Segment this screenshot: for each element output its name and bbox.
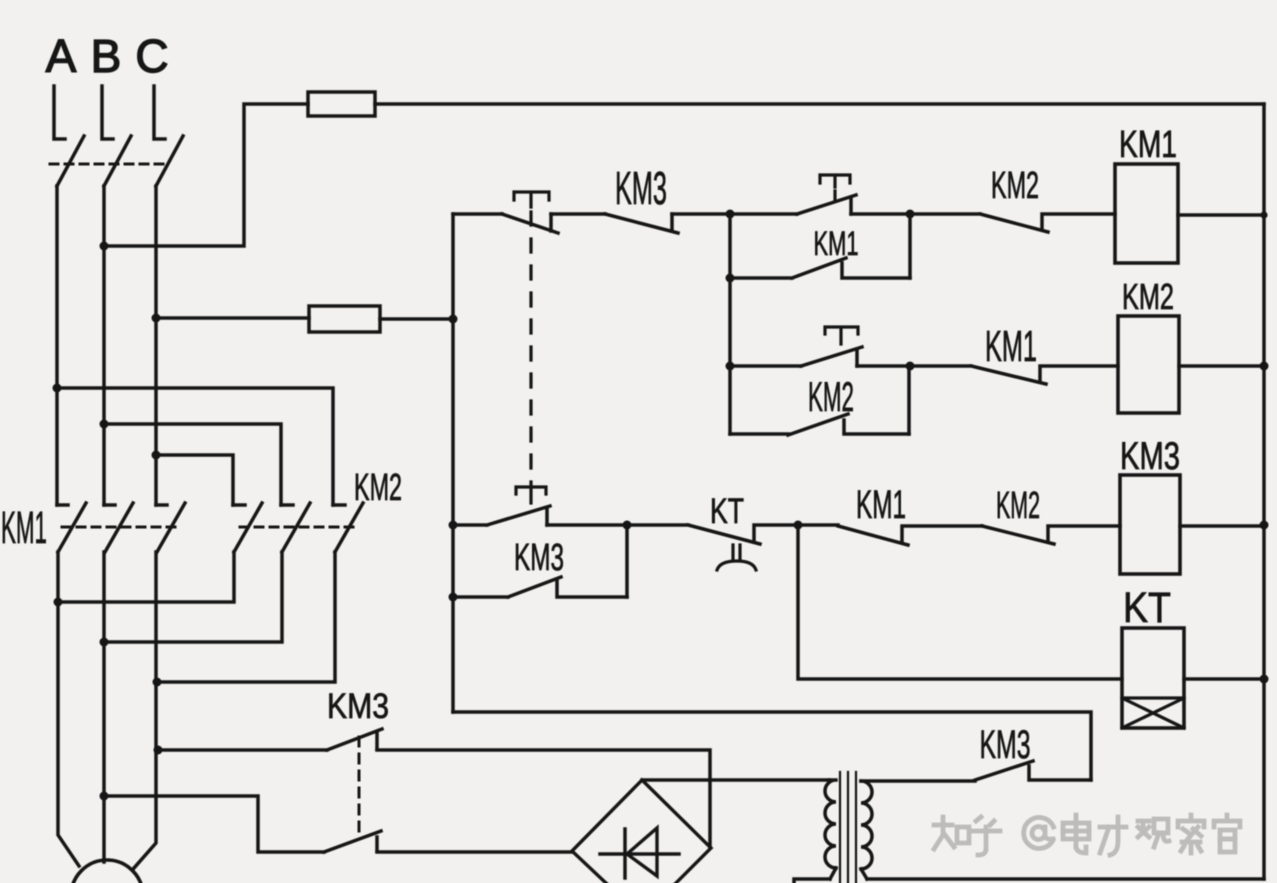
wire B tap to KM3 lower contact xyxy=(104,796,324,852)
dashed link QS xyxy=(50,163,167,166)
node right bus rung2 xyxy=(1260,362,1269,371)
svg-text:KM1: KM1 xyxy=(856,483,906,527)
stop button SB1 NC contact xyxy=(502,214,558,233)
node right bus rung3 xyxy=(1260,521,1269,530)
node B crossover xyxy=(100,420,109,429)
node left bus rung3 xyxy=(449,521,458,530)
KM1 main contact pole A xyxy=(57,503,86,552)
KM1 main contact pole B xyxy=(104,503,133,552)
node rung1 right xyxy=(906,210,915,219)
wire parallel branch left xyxy=(728,214,732,278)
KM2 main contact pole left xyxy=(233,503,262,552)
wire phase B upper xyxy=(102,186,106,505)
start button SB3 NO contact xyxy=(801,347,862,366)
KM2 NC contact rung1 xyxy=(910,214,1115,232)
wire A to KM2 right pole xyxy=(57,388,333,505)
svg-text:B: B xyxy=(91,30,122,82)
wire KM3 upper to rectifier AC xyxy=(377,750,710,847)
stop button SB1 actuator xyxy=(514,192,549,207)
svg-text:KM3: KM3 xyxy=(1120,435,1180,478)
dashed link SB1 xyxy=(529,212,532,484)
fuse FU1 xyxy=(308,92,375,116)
coil KT delay section xyxy=(1122,698,1184,728)
wire KM3 parallel branch right xyxy=(625,525,629,597)
node parallel branch xyxy=(726,274,735,283)
svg-text:KM1: KM1 xyxy=(985,322,1037,371)
svg-text:C: C xyxy=(135,30,168,82)
wire KM2 middle pole to phase B xyxy=(104,552,282,642)
node B KM3 tap xyxy=(100,792,109,801)
wire secondary bottom xyxy=(794,879,830,883)
wire SB2 to node xyxy=(851,212,910,216)
wire bottom feeder xyxy=(453,712,1091,780)
coil KT xyxy=(1122,628,1184,728)
start button SB4 actuator xyxy=(516,487,546,503)
node A lower xyxy=(54,598,63,607)
coil KM3 xyxy=(1120,475,1180,574)
node rung2 right xyxy=(906,362,915,371)
KM1 aux NO contact rung1 xyxy=(730,258,910,278)
svg-text:KM2: KM2 xyxy=(996,485,1040,527)
svg-text:KT: KT xyxy=(1123,584,1171,632)
wire primary bottom xyxy=(867,877,1264,881)
wire phase C lower xyxy=(134,552,156,868)
wire FU1 to right bus xyxy=(375,102,1264,106)
dashed link KM1 xyxy=(62,526,182,529)
diode VD xyxy=(627,828,657,876)
coil KM2 xyxy=(1118,316,1179,413)
node rung1 left xyxy=(726,210,735,219)
wire FU2 to left bus xyxy=(380,317,453,321)
KT delay contact xyxy=(627,525,798,544)
KM3 NC contact rung1 xyxy=(605,214,678,233)
wire C tap to KM3 power contact xyxy=(158,748,327,752)
KM2 main contact pole middle xyxy=(281,503,310,552)
diode VD cathode bar xyxy=(623,829,627,878)
KM2 main contact pole right xyxy=(333,503,363,552)
bridge rectifier VC xyxy=(572,780,711,883)
wire C to fuse FU2 xyxy=(156,316,309,320)
svg-text:KM2: KM2 xyxy=(991,165,1039,207)
wire SB1 to KM3 NC xyxy=(551,212,605,216)
wire left control bus xyxy=(451,214,455,712)
KM3 NO contact bottom right xyxy=(975,761,1091,780)
dashed link KM2 xyxy=(240,526,358,529)
wire SB3 to node xyxy=(857,364,910,368)
wire B to KM2 middle pole xyxy=(104,424,281,505)
svg-text:KM2: KM2 xyxy=(1122,276,1174,317)
wire node to SB2 xyxy=(730,212,797,216)
wire primary top to KM3 contact xyxy=(861,779,975,783)
wire KT rung drop xyxy=(798,525,1122,679)
svg-text:KM3: KM3 xyxy=(980,723,1031,767)
watermark 知乎 @电力观察官 xyxy=(934,815,1240,855)
node B lower xyxy=(100,638,109,647)
wire rung1 start xyxy=(453,212,502,216)
wire parallel branch right xyxy=(908,214,912,278)
node A crossover xyxy=(53,384,62,393)
svg-text:KM3: KM3 xyxy=(615,162,667,214)
transformer secondary winding xyxy=(825,780,836,879)
disconnect switch QS pole A xyxy=(54,86,84,186)
dashed link KM3 power xyxy=(358,737,361,836)
wire coil KM1 to right bus xyxy=(1178,213,1264,217)
wire KM2 right pole to phase C xyxy=(157,552,335,682)
node rung3 mid right xyxy=(794,521,803,530)
wire KM3 lower to rectifier DC xyxy=(377,850,572,854)
wire right control bus xyxy=(1262,104,1266,879)
svg-text:KM1: KM1 xyxy=(814,225,859,263)
KM3 aux NO contact rung3 xyxy=(453,577,627,597)
transformer core xyxy=(840,772,856,883)
svg-text:KM3: KM3 xyxy=(514,537,564,579)
node right bus end xyxy=(1260,675,1269,684)
wire KM2 parallel branch left xyxy=(728,366,732,434)
wire rung2 to SB3 xyxy=(730,364,801,368)
svg-text:A: A xyxy=(46,30,77,82)
KM1 main contact pole C xyxy=(156,503,185,552)
coil KM1 xyxy=(1115,164,1178,263)
KM3 power contact lower xyxy=(324,831,381,852)
node C lower xyxy=(153,678,162,687)
node C crossover xyxy=(152,451,161,460)
svg-text:KT: KT xyxy=(710,492,744,531)
wire C to KM2 left pole xyxy=(156,455,233,505)
KM1 NC contact rung2 xyxy=(910,366,1118,384)
node C KM3 tap xyxy=(154,746,163,755)
node rung3 mid xyxy=(623,521,632,530)
start button SB2 actuator xyxy=(820,175,850,201)
wire phase B lower xyxy=(102,552,106,862)
wire coil KM2 to right bus xyxy=(1179,364,1264,368)
wire rung2 left drop xyxy=(728,278,732,366)
disconnect switch QS pole C xyxy=(154,86,183,186)
KM3 power contact upper xyxy=(327,729,382,750)
KT delay symbol xyxy=(717,545,756,570)
wire phase C upper xyxy=(154,186,158,505)
svg-text:KM3: KM3 xyxy=(327,687,389,726)
disconnect switch QS pole B xyxy=(102,86,131,186)
wire SB4 to node xyxy=(547,523,627,527)
transformer primary winding xyxy=(861,781,872,879)
KM2 NC contact rung3 xyxy=(982,526,1120,544)
node rung2 left xyxy=(726,362,735,371)
fuse FU2 xyxy=(309,306,380,332)
wire KM3 NC to node xyxy=(672,212,730,216)
start button SB3 actuator xyxy=(825,327,858,344)
node C fuse tap xyxy=(152,314,161,323)
start button SB4 NO contact xyxy=(453,506,550,525)
node left bus FU2 xyxy=(449,315,458,324)
node left bus KM3 branch xyxy=(449,593,458,602)
svg-text:KM1: KM1 xyxy=(1,502,47,553)
wire coil KM3 to right bus xyxy=(1180,524,1264,528)
diode VD lead xyxy=(600,852,679,856)
wire phase A upper xyxy=(55,186,59,505)
node right bus rung1 xyxy=(1260,211,1267,218)
wire KM2 left pole to phase A xyxy=(58,552,234,602)
wire coil KT to right bus xyxy=(1184,677,1264,681)
wire phase A lower xyxy=(58,552,79,866)
KM1 NC contact rung3 xyxy=(798,525,982,545)
wire KM2 parallel branch right xyxy=(907,366,911,434)
svg-text:KM1: KM1 xyxy=(1119,124,1177,166)
start button SB2 NO contact xyxy=(797,195,856,214)
node B fuse tap xyxy=(100,242,109,251)
KM2 aux NO contact rung2 xyxy=(730,414,909,435)
motor M xyxy=(71,860,143,883)
wire B to fuse FU1 xyxy=(104,104,308,246)
wire rectifier to transformer secondary xyxy=(642,778,829,782)
